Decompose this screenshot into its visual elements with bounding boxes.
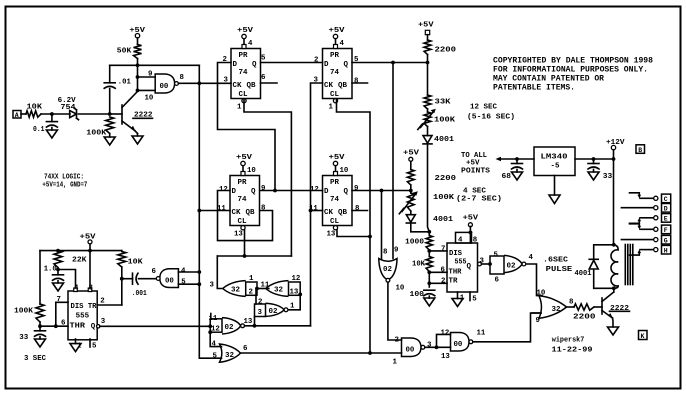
junction base node — [108, 112, 112, 116]
wire FF1 D feedback from Q3 — [218, 63, 276, 191]
FF1 CL pin circle pin 1 — [242, 99, 246, 103]
svg-text:2: 2 — [395, 337, 399, 345]
svg-text:1.0: 1.0 — [44, 265, 57, 273]
wire relay flyback branch — [594, 245, 614, 259]
relay contact C terminal — [654, 196, 658, 200]
wire 555B pin5 stub — [469, 292, 471, 301]
svg-text:13: 13 — [244, 318, 253, 326]
svg-text:9: 9 — [536, 317, 540, 325]
svg-text:74: 74 — [239, 69, 249, 77]
wire clock net vertical — [198, 65, 200, 358]
svg-text:.001: .001 — [132, 290, 147, 298]
resistor 50K — [134, 45, 142, 59]
wire 33K to pot — [427, 109, 429, 112]
wire FF4 CL to CL net — [337, 230, 370, 236]
node B terminal box — [636, 145, 645, 154]
svg-text:LM340: LM340 — [541, 154, 569, 162]
wire oscillator top rail — [110, 64, 200, 66]
junction 22K bottom — [56, 268, 60, 272]
svg-text:DIS TR: DIS TR — [71, 303, 97, 311]
ground 555A pin1 — [70, 344, 81, 352]
svg-text:50K: 50K — [117, 47, 132, 55]
svg-text:(2-7 SEC): (2-7 SEC) — [456, 195, 502, 203]
svg-text:4001: 4001 — [575, 270, 592, 278]
junction TR node — [427, 281, 431, 285]
wire +12V rail down to relay — [613, 159, 615, 245]
svg-text:10: 10 — [340, 167, 349, 175]
wire 1.0 to ground — [57, 281, 59, 283]
svg-text:74: 74 — [238, 196, 248, 204]
Q3 emitter arrow — [608, 313, 613, 318]
wire G3 pin3 riser — [254, 317, 256, 326]
wire G7 out to G8 pin12 — [437, 334, 451, 347]
wire 555A +5V down — [89, 244, 91, 251]
svg-text:02: 02 — [383, 266, 393, 274]
svg-text:1: 1 — [393, 359, 398, 367]
junction relay coil bottom — [612, 286, 616, 290]
svg-text:22K: 22K — [72, 256, 87, 264]
svg-text:THR: THR — [449, 269, 462, 277]
G4 pin 11 stub — [210, 314, 212, 319]
capacitor .001 plates — [132, 273, 134, 284]
svg-text:5: 5 — [494, 252, 499, 260]
svg-text:33: 33 — [603, 173, 613, 181]
NOR gate 02 G4 input pin box — [210, 319, 222, 332]
junction 33 cap — [592, 157, 596, 161]
svg-text:0.1: 0.1 — [33, 126, 45, 134]
FF2 wire +5V to PR pin — [335, 39, 337, 45]
NOR gate 02 G3 input pin box — [255, 304, 266, 317]
junction clock net tap — [197, 81, 201, 85]
NAND gate 00 G7 — [402, 338, 422, 357]
wire +5V to 50K — [137, 38, 139, 45]
svg-text:11-22-99: 11-22-99 — [552, 347, 594, 355]
svg-text:8: 8 — [473, 236, 478, 244]
svg-text:Q: Q — [251, 188, 256, 196]
wire 555B out to G10 inputs — [481, 263, 490, 265]
svg-text:5: 5 — [261, 55, 266, 63]
wire diode 12sec down to merge — [428, 144, 430, 236]
svg-text:2200: 2200 — [435, 175, 457, 183]
wire G4 corner to OR3 pin4 — [210, 332, 221, 346]
FF2 +5V terminal — [333, 34, 337, 38]
svg-text:5: 5 — [92, 343, 97, 351]
wire 68 cap stem — [516, 159, 518, 164]
svg-text:00: 00 — [406, 347, 415, 355]
svg-text:CK: CK — [232, 209, 242, 217]
NAND gate U1 00 oscillator — [155, 74, 174, 93]
relay contact G letter box — [662, 235, 671, 244]
wire 555A +5V rail — [40, 250, 122, 252]
svg-text:D: D — [233, 61, 238, 69]
svg-text:13: 13 — [290, 289, 299, 297]
capacitor .01 plates — [104, 82, 115, 84]
junction 555A out at G4 box — [208, 324, 212, 328]
wire 1.0 stem — [57, 270, 59, 275]
wire 2200 to Q2 node — [427, 55, 429, 96]
wire G5 output long net 8 — [241, 352, 402, 354]
svg-text:PR: PR — [330, 179, 340, 187]
svg-text:13: 13 — [327, 231, 336, 239]
wire DIS loop — [56, 302, 68, 326]
svg-text:D: D — [324, 61, 329, 69]
svg-text:QB: QB — [247, 82, 257, 90]
wire FF2 Q to timing column — [352, 62, 428, 64]
svg-text:4: 4 — [248, 40, 253, 48]
wire relay flyback branch lower — [594, 270, 614, 289]
svg-text:6: 6 — [61, 320, 66, 328]
wire FF3 CL to reset wire — [244, 230, 246, 256]
svg-text:7: 7 — [57, 296, 61, 304]
svg-text:7: 7 — [441, 246, 445, 254]
NAND U1 output bubble — [175, 82, 179, 86]
wire LM340 out — [575, 158, 614, 160]
svg-text:8: 8 — [354, 78, 359, 86]
wire 12sec term to 2200 — [427, 35, 429, 40]
svg-text:5: 5 — [181, 279, 186, 287]
wire reset net down to OR1 output — [217, 256, 223, 289]
G11 output bubble — [156, 277, 160, 281]
wire zener to base node — [79, 113, 110, 115]
junction FF4 CK tap — [309, 209, 313, 213]
wire THR to TR — [428, 272, 430, 287]
svg-text:Q: Q — [467, 263, 472, 271]
FF4 PR pin square pin 10 — [334, 172, 338, 176]
wire G11 pin4 to clock net — [178, 271, 199, 273]
svg-text:+5V: +5V — [463, 215, 479, 223]
junction Q4 branch NOR pin8 — [380, 189, 384, 193]
svg-text:4001: 4001 — [433, 216, 454, 224]
capacitor 33 plates — [588, 163, 599, 165]
wire 33 3sec to ground — [39, 337, 41, 339]
svg-text:COPYRIGHTED BY DALE THOMPSON 1: COPYRIGHTED BY DALE THOMPSON 1998 — [493, 57, 653, 66]
wire rail left down to 100K — [39, 251, 41, 304]
node A input terminal box — [13, 111, 21, 119]
ground 0.1 cap — [46, 130, 57, 138]
OR gate 32 G5 body — [220, 344, 241, 362]
G1 input pin box — [246, 282, 257, 295]
svg-text:PULSE: PULSE — [546, 266, 573, 274]
wire LM340 gnd stem — [554, 176, 556, 196]
junction 68 cap — [515, 157, 519, 161]
svg-text:5: 5 — [472, 296, 477, 304]
junction G7 out node — [435, 345, 439, 349]
relay contact D line — [621, 207, 653, 209]
svg-text:PR: PR — [239, 52, 249, 60]
resistor 33K — [424, 95, 431, 109]
junction Q3 to D1 — [273, 189, 277, 193]
wire 50K to node — [137, 59, 139, 91]
555B output bubble — [478, 262, 482, 266]
wire 100K to THR node — [39, 322, 41, 326]
FF3 wire +5V to PR pin — [242, 166, 244, 172]
junction input node / 0.1 cap — [50, 112, 54, 116]
ground 100 cap — [424, 298, 435, 306]
svg-text:00: 00 — [160, 83, 169, 91]
svg-text:9: 9 — [148, 71, 152, 79]
wire THR node to 555B pin6 — [429, 271, 447, 273]
svg-text:CK: CK — [233, 82, 243, 90]
wire 0.1 cap stem — [51, 114, 53, 122]
relay contact F line — [640, 228, 653, 230]
FF1 +5V terminal — [242, 34, 246, 38]
junction FF4 CL tap — [368, 235, 372, 239]
G2 input pin box — [289, 282, 301, 295]
wire DIS node to 555B pin7 — [429, 250, 447, 252]
svg-text:.6SEC: .6SEC — [543, 256, 569, 264]
+5V terminal 4sec — [409, 157, 413, 161]
G7 output bubble — [421, 345, 425, 349]
wire 33 cap stem — [593, 159, 595, 164]
ground 33 cap — [588, 172, 599, 180]
svg-text:Q: Q — [344, 188, 349, 196]
wire G1 input to G2 output — [257, 288, 269, 290]
arrow to-all-5V-points — [496, 157, 502, 161]
svg-text:+5V: +5V — [236, 154, 253, 162]
svg-text:4 SEC: 4 SEC — [463, 187, 486, 195]
wire TR node to .001 — [122, 278, 133, 280]
svg-text:12: 12 — [441, 330, 450, 338]
svg-text:1: 1 — [249, 275, 254, 283]
wire 68 to ground — [516, 169, 518, 172]
FF4 CL pin circle pin 13 — [333, 226, 337, 230]
svg-text:2200: 2200 — [573, 313, 596, 321]
pot 100K 12sec wiper arrow — [421, 112, 434, 128]
flip-flop FF4 74 box — [323, 176, 353, 226]
capacitor 1.0 plates — [53, 274, 64, 276]
NOR gate 02 G4 body — [222, 318, 241, 334]
ground 1.0 cap — [53, 283, 64, 291]
svg-text:100K: 100K — [433, 194, 455, 202]
potentiometer 100K 4sec — [407, 193, 414, 211]
wire Q4 branch down to NOR pin8 — [381, 191, 383, 259]
svg-text:3 SEC: 3 SEC — [24, 355, 46, 363]
NOR gate 02 G10 input pin box — [490, 256, 504, 274]
relay contact E line — [640, 217, 653, 219]
svg-text:1: 1 — [460, 295, 465, 303]
svg-text:02: 02 — [507, 263, 517, 271]
svg-text:74: 74 — [330, 69, 340, 77]
ground Q3 emitter — [608, 327, 619, 335]
svg-text:F: F — [664, 227, 668, 234]
Q3 label underline — [610, 310, 630, 312]
wire TR node to 555A pin2 — [97, 304, 122, 306]
wire relay coil bottom to Q3 collector — [613, 288, 615, 292]
wire G2 inputs to G3 output — [288, 294, 300, 309]
svg-text:QB: QB — [338, 82, 348, 90]
svg-text:5: 5 — [213, 352, 218, 360]
svg-text:8: 8 — [383, 249, 388, 257]
relay contact E letter box — [662, 214, 671, 223]
wire Q2 branch down to NOR pin9 — [392, 63, 394, 259]
svg-text:6: 6 — [261, 74, 266, 82]
svg-text:3: 3 — [210, 282, 215, 290]
timer U3 555 box — [68, 291, 97, 340]
svg-text:100K: 100K — [434, 117, 456, 125]
wire FF2 QB stub — [352, 82, 368, 84]
svg-text:12: 12 — [292, 275, 301, 283]
wire G4 output to clock riser — [245, 325, 311, 327]
capacitor 68 plates — [512, 163, 523, 165]
+12V terminal — [611, 145, 615, 149]
svg-text:74XX LOGIC:: 74XX LOGIC: — [44, 174, 84, 182]
ground 68 cap — [512, 172, 523, 180]
svg-text:(5-16 SEC): (5-16 SEC) — [467, 113, 515, 121]
wire FF4 QB stub — [352, 210, 368, 212]
wire +12V to rail — [613, 150, 615, 159]
svg-text:CK: CK — [324, 82, 334, 90]
timer U4 555 box — [447, 243, 478, 292]
wire NAND U1 output to FF1 CK — [178, 82, 231, 84]
svg-text:D: D — [324, 188, 329, 196]
relay contact H line — [640, 249, 653, 251]
junction DIS node — [427, 249, 431, 253]
FF1 PR pin square pin 4 — [242, 45, 246, 49]
relay contact D letter box — [662, 204, 671, 213]
junction Q2 branch — [391, 61, 395, 65]
NOR gate 02 G6 down-pointing body — [379, 259, 397, 280]
svg-text:CL: CL — [330, 218, 340, 226]
wire rail corner to 10K — [121, 250, 123, 253]
svg-text:PR: PR — [330, 52, 340, 60]
svg-text:100K: 100K — [14, 307, 34, 315]
wire 100K to ground — [109, 134, 111, 138]
wire .01 stem top — [109, 65, 111, 83]
NAND gate 00 G8 — [451, 333, 470, 352]
ground 555B pin1 — [452, 299, 463, 307]
svg-text:+5V: +5V — [403, 150, 420, 158]
svg-text:QB: QB — [338, 209, 348, 217]
svg-text:C: C — [664, 196, 668, 203]
resistor 10K 555A — [118, 252, 126, 268]
svg-text:100K: 100K — [86, 129, 107, 137]
svg-text:2: 2 — [249, 289, 253, 297]
wire clock net to OR3 pin5 — [199, 357, 221, 359]
wire Q1 emitter down — [137, 134, 139, 137]
svg-text:THR: THR — [70, 323, 86, 331]
svg-text:4: 4 — [340, 40, 345, 48]
flip-flop FF1 74 box — [231, 49, 261, 99]
ground LM340 — [549, 195, 560, 204]
resistor 2200 base Q3 — [574, 304, 594, 310]
pot 100K 4sec wiper arrow — [402, 194, 416, 212]
FF2 PR pin square pin 4 — [334, 45, 338, 49]
junction G4 box corner — [208, 330, 212, 334]
ground 100K base — [104, 137, 115, 145]
svg-text:02: 02 — [225, 324, 235, 332]
wire G3 pin2 riser — [255, 289, 257, 305]
Q1 emitter arrow — [131, 126, 136, 132]
555A pin 8 square — [88, 288, 92, 292]
resistor 10K timing — [426, 257, 432, 272]
svg-text:33K: 33K — [435, 99, 452, 107]
svg-text:4: 4 — [458, 236, 463, 244]
svg-text:9: 9 — [394, 247, 398, 255]
svg-text:9: 9 — [354, 185, 358, 193]
FF3 CL pin circle pin 13 — [241, 226, 245, 230]
wire G9 pin9 in — [532, 312, 541, 314]
junction Q2 node 12sec — [426, 61, 430, 65]
wire FF1 CL to reset net — [244, 100, 291, 256]
resistor 1000 — [426, 236, 432, 251]
wire NAND U1 input 9 — [138, 76, 156, 78]
svg-text:11: 11 — [209, 315, 218, 323]
capacitor 0.1 plates — [46, 121, 57, 123]
svg-text:4: 4 — [529, 254, 534, 262]
svg-text:8: 8 — [180, 74, 185, 82]
svg-text:100: 100 — [410, 291, 425, 299]
wire 33 stem — [39, 326, 41, 331]
G6 output bubble — [386, 278, 390, 282]
svg-text:2: 2 — [441, 278, 445, 286]
junction TR coupling node — [120, 277, 124, 281]
svg-text:+5V: +5V — [237, 27, 254, 35]
FF2 CL pin circle pin 1 — [333, 99, 337, 103]
svg-text:.01: .01 — [118, 79, 131, 87]
svg-text:Q: Q — [344, 61, 349, 69]
wire 10K to zener — [41, 113, 70, 115]
relay core lines — [624, 245, 626, 285]
junction 100K cap 33 — [38, 324, 42, 328]
relay contact G line — [621, 239, 653, 241]
svg-text:+5V: +5V — [80, 233, 97, 241]
wire FF4 Q to timing node — [352, 190, 411, 192]
svg-text:3: 3 — [427, 342, 432, 350]
transistor Q3 2222 — [601, 298, 603, 314]
G8 output bubble — [469, 340, 473, 344]
svg-text:3: 3 — [258, 309, 263, 317]
wire DIS to 10K — [428, 251, 430, 257]
resistor 10K input — [26, 111, 41, 117]
svg-text:+5V: +5V — [329, 154, 346, 162]
svg-text:2200: 2200 — [435, 47, 457, 55]
G3 output bubble — [284, 308, 288, 312]
resistor 22K — [54, 251, 62, 268]
svg-text:6: 6 — [495, 277, 500, 285]
svg-text:754: 754 — [61, 104, 77, 112]
junction 50K / horizontal wire — [136, 63, 140, 67]
junction THR node — [427, 270, 431, 274]
svg-text:8: 8 — [355, 205, 360, 213]
svg-text:4: 4 — [212, 340, 217, 348]
svg-text:1: 1 — [237, 104, 242, 112]
wire 555B pin1 stub — [457, 292, 459, 299]
svg-text:1: 1 — [290, 303, 295, 311]
svg-text:12 SEC: 12 SEC — [470, 103, 497, 111]
wire .01 stem bottom — [109, 89, 111, 115]
svg-text:6: 6 — [243, 345, 248, 353]
svg-text:555: 555 — [76, 312, 90, 320]
svg-text:K: K — [641, 333, 645, 340]
resistor 2200 12sec — [424, 40, 431, 55]
svg-text:D: D — [232, 188, 237, 196]
wire THR node to 555A pin6 — [40, 325, 68, 327]
svg-text:-5: -5 — [551, 163, 561, 171]
relay contact E terminal — [654, 216, 658, 220]
G10 output bubble — [522, 262, 526, 266]
svg-text:9: 9 — [261, 185, 265, 193]
wire 555A pin1 stub — [75, 339, 77, 344]
relay contact H terminal — [654, 248, 658, 252]
wire 555B +5V down — [469, 227, 471, 244]
svg-text:11: 11 — [477, 330, 486, 338]
junction G10 inputs — [488, 262, 492, 266]
wire .001 to G11 bubble — [139, 278, 157, 280]
wire 2200 to Q3 base — [594, 306, 602, 308]
G4 output bubble — [241, 324, 245, 328]
relay contact H letter box — [662, 245, 671, 254]
svg-text:10: 10 — [247, 167, 256, 175]
